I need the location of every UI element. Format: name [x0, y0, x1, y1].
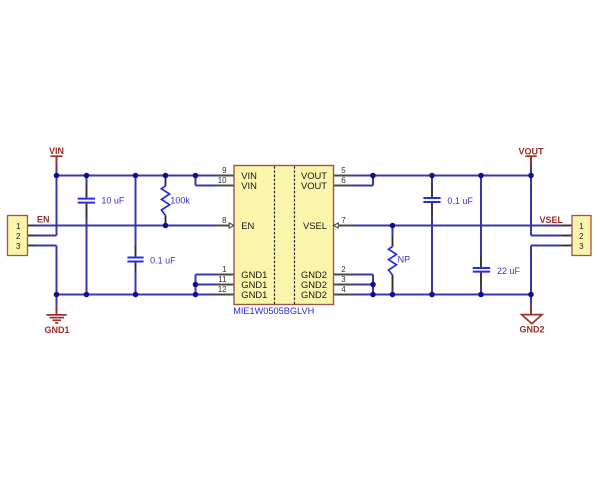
svg-text:22 uF: 22 uF: [497, 266, 521, 276]
svg-text:MIE1W0505BGLVH: MIE1W0505BGLVH: [233, 306, 314, 316]
svg-text:9: 9: [222, 166, 227, 175]
svg-text:GND2: GND2: [519, 325, 544, 335]
svg-text:5: 5: [341, 166, 346, 175]
svg-text:NP: NP: [398, 255, 411, 265]
svg-text:3: 3: [341, 275, 346, 284]
svg-text:VSEL: VSEL: [540, 215, 564, 225]
svg-text:6: 6: [341, 176, 346, 185]
svg-text:2: 2: [341, 265, 346, 274]
svg-text:3: 3: [579, 242, 584, 251]
svg-text:1: 1: [579, 222, 584, 231]
svg-text:4: 4: [341, 285, 346, 294]
svg-text:10: 10: [218, 176, 227, 185]
svg-text:GND2: GND2: [301, 289, 327, 300]
svg-text:3: 3: [16, 242, 21, 251]
svg-text:12: 12: [218, 285, 227, 294]
svg-text:VOUT: VOUT: [518, 146, 544, 156]
svg-text:0.1 uF: 0.1 uF: [447, 196, 473, 206]
svg-text:0.1 uF: 0.1 uF: [150, 256, 176, 266]
svg-text:VIN: VIN: [241, 180, 257, 191]
svg-text:GND1: GND1: [241, 289, 267, 300]
svg-text:10 uF: 10 uF: [101, 196, 125, 206]
svg-text:VSEL: VSEL: [303, 220, 327, 231]
svg-text:GND1: GND1: [44, 325, 69, 335]
svg-text:VOUT: VOUT: [301, 180, 327, 191]
svg-text:100k: 100k: [170, 195, 190, 205]
svg-text:11: 11: [218, 275, 227, 284]
svg-text:VIN: VIN: [49, 146, 64, 156]
svg-text:EN: EN: [241, 220, 254, 231]
svg-text:7: 7: [341, 216, 346, 225]
svg-text:EN: EN: [37, 215, 50, 225]
svg-text:1: 1: [16, 222, 21, 231]
svg-text:1: 1: [222, 265, 227, 274]
svg-text:2: 2: [16, 232, 21, 241]
svg-text:8: 8: [222, 216, 227, 225]
svg-text:2: 2: [579, 232, 584, 241]
